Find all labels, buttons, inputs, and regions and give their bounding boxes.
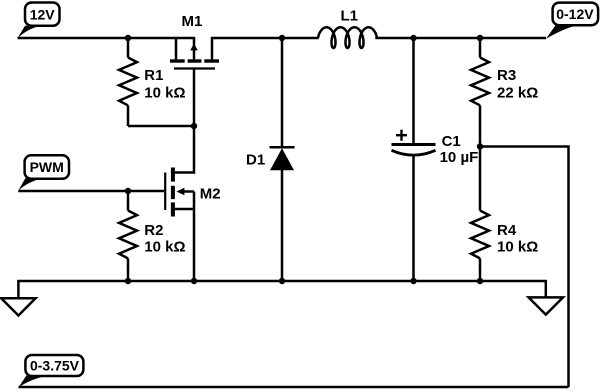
svg-text:10 kΩ: 10 kΩ	[144, 238, 185, 255]
wire PWM to M2 gate	[18, 190, 164, 193]
resistor R2	[119, 191, 137, 281]
junction C1 top	[410, 35, 416, 41]
wire 12V rail left	[18, 38, 195, 59]
resistor R1	[119, 38, 137, 126]
inductor L1	[318, 27, 377, 48]
junction R1 top	[125, 35, 131, 41]
wire divider node to right edge	[480, 147, 569, 388]
svg-text:0-12V: 0-12V	[556, 6, 594, 22]
svg-text:22 kΩ: 22 kΩ	[497, 84, 538, 101]
svg-text:M1: M1	[182, 13, 203, 30]
svg-text:10 kΩ: 10 kΩ	[144, 84, 185, 101]
net flag PWM	[18, 155, 69, 191]
ground symbol left	[1, 298, 35, 315]
junction R2 top	[125, 188, 131, 194]
net flag 12V	[18, 3, 60, 39]
svg-text:12V: 12V	[30, 6, 56, 22]
resistor R4	[471, 147, 489, 282]
capacitor C1	[392, 38, 436, 281]
svg-text:L1: L1	[341, 8, 359, 25]
ground symbol right	[529, 297, 563, 314]
node R3 R4 divider junction	[477, 143, 483, 149]
node gate M1 junction	[191, 123, 197, 129]
junction D1 bottom	[279, 278, 285, 284]
junction R3 top	[477, 35, 483, 41]
junction C1 bottom	[410, 278, 416, 284]
net flag 0-12V	[546, 3, 598, 39]
svg-text:M2: M2	[200, 186, 221, 203]
svg-text:D1: D1	[246, 152, 265, 169]
junction D1 top	[279, 35, 285, 41]
svg-text:0-3.75V: 0-3.75V	[30, 357, 80, 373]
wire ground rail	[18, 281, 545, 298]
wire 0-3.75V feedback	[19, 386, 569, 389]
junction R4 bottom	[477, 278, 483, 284]
resistor R3	[471, 38, 489, 147]
wire M1 drain to rail right	[212, 38, 319, 59]
net flag 0-3.75V	[19, 355, 84, 387]
svg-text:PWM: PWM	[30, 159, 64, 175]
svg-text:R4: R4	[497, 222, 517, 239]
transistor M2	[165, 126, 194, 281]
junction M2 source bottom	[191, 278, 197, 284]
svg-text:R1: R1	[144, 67, 163, 84]
svg-text:R2: R2	[144, 222, 163, 239]
polarity plus sign C1	[396, 130, 407, 141]
svg-text:R3: R3	[497, 67, 516, 84]
svg-text:C1: C1	[442, 133, 461, 150]
svg-text:10 kΩ: 10 kΩ	[497, 238, 538, 255]
junction R2 bottom	[125, 278, 131, 284]
transistor M1	[170, 38, 219, 126]
wire L1 to 0-12V flag	[375, 37, 546, 40]
diode D1	[270, 38, 295, 281]
svg-text:10 µF: 10 µF	[440, 149, 479, 166]
wire R1 bottom to gate node	[128, 125, 194, 128]
